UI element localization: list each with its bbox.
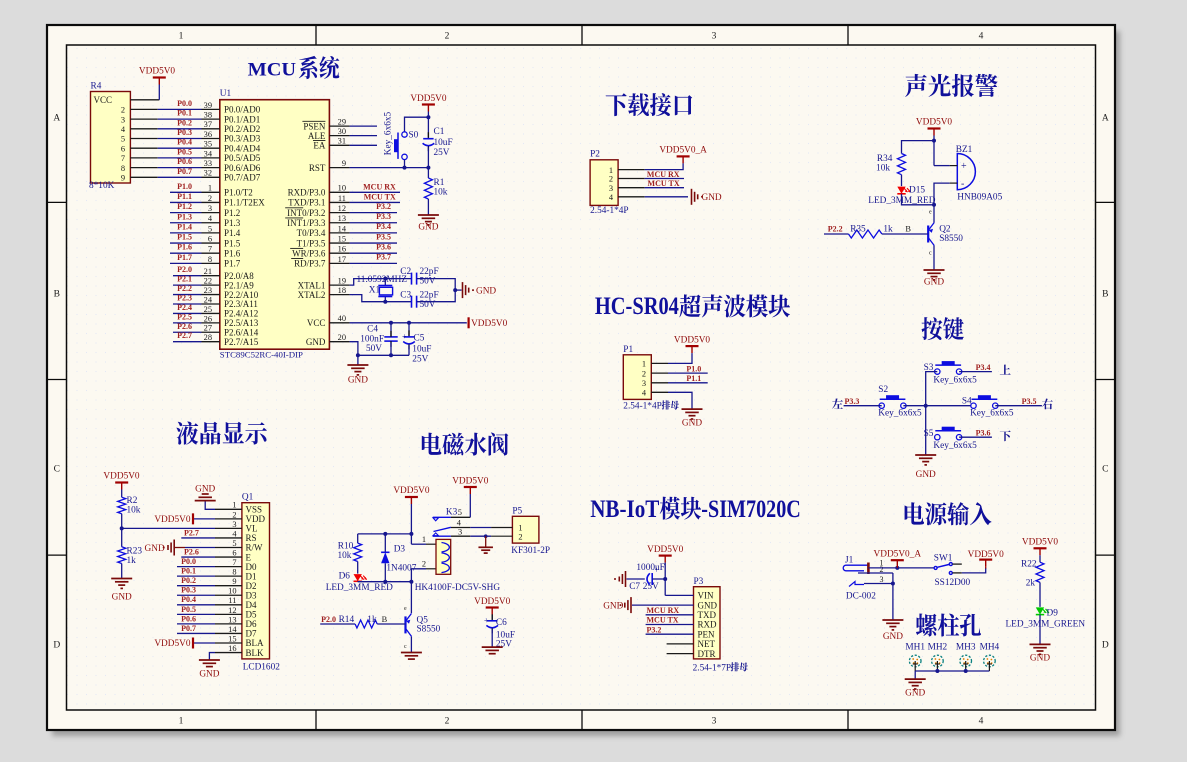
svg-text:1k: 1k — [127, 556, 137, 566]
svg-text:MH1: MH1 — [905, 643, 925, 653]
svg-text:30: 30 — [338, 127, 346, 136]
svg-text:3: 3 — [712, 32, 717, 42]
svg-text:GND: GND — [883, 632, 903, 642]
svg-text:VDD5V0: VDD5V0 — [103, 472, 140, 482]
svg-text:P1.2: P1.2 — [177, 202, 192, 211]
svg-text:34: 34 — [204, 149, 213, 158]
svg-text:D1: D1 — [246, 571, 257, 581]
svg-text:2.54-1*4P: 2.54-1*4P — [623, 402, 661, 412]
svg-text:P1.7: P1.7 — [224, 259, 241, 269]
svg-text:U1: U1 — [220, 89, 232, 99]
svg-text:28: 28 — [204, 333, 212, 342]
svg-text:3: 3 — [208, 204, 212, 213]
svg-text:16: 16 — [228, 644, 236, 653]
svg-text:1000uF: 1000uF — [636, 563, 664, 573]
svg-text:HNB09A05: HNB09A05 — [957, 193, 1002, 203]
svg-text:E: E — [246, 552, 252, 562]
svg-text:1: 1 — [642, 360, 646, 369]
svg-text:2: 2 — [445, 717, 450, 727]
svg-text:STC89C52RC-40I-DIP: STC89C52RC-40I-DIP — [220, 350, 303, 360]
svg-text:P3.4: P3.4 — [976, 363, 991, 372]
svg-text:1: 1 — [232, 501, 236, 510]
svg-text:8*10K: 8*10K — [89, 181, 115, 191]
svg-text:1k: 1k — [367, 615, 377, 625]
svg-text:VDD5V0: VDD5V0 — [139, 67, 176, 77]
svg-text:D3: D3 — [394, 544, 406, 554]
svg-text:A: A — [1102, 114, 1109, 124]
svg-text:8: 8 — [208, 255, 212, 264]
svg-text:GND: GND — [698, 600, 718, 610]
svg-text:37: 37 — [204, 120, 212, 129]
svg-text:MH3: MH3 — [956, 643, 976, 653]
svg-text:P0.5/AD5: P0.5/AD5 — [224, 153, 261, 163]
svg-text:D15: D15 — [909, 186, 925, 196]
svg-text:LCD1602: LCD1602 — [243, 663, 281, 673]
svg-text:S4: S4 — [962, 397, 972, 407]
svg-text:3: 3 — [121, 115, 125, 124]
svg-text:21: 21 — [204, 267, 212, 276]
svg-text:P1.4: P1.4 — [224, 228, 241, 238]
svg-text:P1.2: P1.2 — [224, 208, 240, 218]
svg-text:GND: GND — [603, 602, 623, 612]
svg-text:VDD5V0_A: VDD5V0_A — [659, 146, 707, 156]
svg-text:VIN: VIN — [698, 591, 714, 601]
svg-text:S5: S5 — [924, 429, 934, 439]
svg-text:P3.2: P3.2 — [647, 625, 662, 634]
svg-text:DC-002: DC-002 — [846, 592, 876, 602]
svg-text:10: 10 — [338, 184, 346, 193]
svg-text:23: 23 — [204, 286, 212, 295]
svg-text:P2.3: P2.3 — [177, 293, 192, 302]
svg-text:20: 20 — [338, 333, 346, 342]
svg-text:P0.0/AD0: P0.0/AD0 — [224, 105, 261, 115]
svg-text:2: 2 — [445, 32, 450, 42]
svg-text:VSS: VSS — [246, 505, 263, 515]
svg-text:R35: R35 — [850, 225, 866, 235]
svg-text:VDD5V0: VDD5V0 — [1022, 538, 1059, 548]
svg-text:P3.3: P3.3 — [376, 212, 391, 221]
svg-text:MCU RX: MCU RX — [647, 606, 680, 615]
svg-text:P3.5: P3.5 — [376, 232, 391, 241]
svg-text:ALE: ALE — [308, 131, 326, 141]
svg-text:HK4100F-DC5V-SHG: HK4100F-DC5V-SHG — [415, 583, 501, 593]
svg-text:10k: 10k — [127, 506, 141, 516]
svg-text:26: 26 — [204, 314, 212, 323]
svg-text:100nF: 100nF — [360, 335, 384, 345]
svg-text:Key_6x6x5: Key_6x6x5 — [970, 408, 1014, 418]
svg-text:12: 12 — [228, 606, 236, 615]
svg-text:R2: R2 — [127, 496, 138, 506]
svg-text:9: 9 — [232, 577, 236, 586]
svg-text:P3.2: P3.2 — [376, 202, 391, 211]
svg-text:BZ1: BZ1 — [956, 145, 973, 155]
svg-text:C5: C5 — [414, 334, 425, 344]
svg-text:22pF: 22pF — [420, 290, 439, 300]
svg-text:P0.0: P0.0 — [181, 557, 196, 566]
svg-text:P1.0: P1.0 — [177, 182, 192, 191]
svg-text:10uF: 10uF — [412, 345, 431, 355]
svg-text:P3.4: P3.4 — [376, 222, 391, 231]
svg-text:P0.6/AD6: P0.6/AD6 — [224, 163, 261, 173]
svg-text:VDD5V0: VDD5V0 — [154, 639, 191, 649]
svg-text:B: B — [905, 225, 911, 234]
svg-text:S0: S0 — [409, 131, 419, 141]
svg-text:P2.7: P2.7 — [177, 331, 192, 340]
svg-text:NB-IoT: NB-IoT — [590, 496, 659, 523]
svg-text:WR/P3.6: WR/P3.6 — [292, 248, 326, 258]
svg-text:NET: NET — [698, 639, 716, 649]
svg-text:P1.5: P1.5 — [224, 238, 241, 248]
svg-text:2: 2 — [518, 532, 522, 541]
svg-text:1k: 1k — [883, 225, 893, 235]
svg-text:6: 6 — [232, 548, 236, 557]
svg-text:17: 17 — [338, 255, 346, 264]
svg-text:P3: P3 — [694, 577, 704, 587]
svg-text:GND: GND — [195, 485, 215, 495]
svg-text:R4: R4 — [91, 82, 102, 92]
svg-text:11: 11 — [338, 194, 346, 203]
svg-text:7: 7 — [232, 558, 236, 567]
svg-text:19: 19 — [338, 277, 346, 286]
svg-text:K3: K3 — [446, 507, 458, 517]
svg-text:Key_6x6x5: Key_6x6x5 — [384, 111, 394, 155]
svg-text:P2.6: P2.6 — [184, 547, 199, 556]
svg-text:R1: R1 — [434, 178, 445, 188]
svg-text:P1.6: P1.6 — [177, 243, 192, 252]
svg-text:D: D — [1102, 641, 1109, 651]
svg-text:33: 33 — [204, 159, 212, 168]
svg-text:TXD/P3.1: TXD/P3.1 — [288, 198, 325, 208]
svg-text:C1: C1 — [434, 127, 445, 137]
svg-text:32: 32 — [204, 169, 212, 178]
svg-text:R/W: R/W — [246, 543, 264, 553]
svg-text:e: e — [404, 606, 407, 612]
svg-text:GND: GND — [916, 470, 936, 480]
svg-text:2: 2 — [609, 175, 613, 184]
svg-text:RST: RST — [309, 163, 326, 173]
svg-text:16: 16 — [338, 245, 346, 254]
svg-text:RXD: RXD — [698, 620, 718, 630]
svg-text:35: 35 — [204, 140, 212, 149]
svg-text:P0.7: P0.7 — [177, 167, 192, 176]
svg-text:40: 40 — [338, 314, 346, 323]
svg-text:D5: D5 — [246, 610, 257, 620]
svg-text:10uF: 10uF — [434, 138, 453, 148]
svg-text:25V: 25V — [496, 640, 512, 650]
svg-text:RS: RS — [246, 533, 257, 543]
svg-text:GND: GND — [682, 419, 702, 429]
svg-text:LED_3MM_GREEN: LED_3MM_GREEN — [1006, 619, 1086, 629]
svg-text:P1.0: P1.0 — [686, 365, 701, 374]
svg-text:C3: C3 — [400, 290, 411, 300]
svg-text:25V: 25V — [434, 148, 450, 158]
svg-text:VDD5V0: VDD5V0 — [647, 545, 684, 555]
svg-text:1: 1 — [609, 166, 613, 175]
svg-text:P2.1: P2.1 — [177, 275, 192, 284]
svg-text:27: 27 — [204, 324, 212, 333]
svg-text:13: 13 — [228, 615, 236, 624]
svg-text:P2.0: P2.0 — [321, 615, 336, 624]
svg-text:XTAL2: XTAL2 — [298, 290, 326, 300]
svg-text:P1.4: P1.4 — [177, 222, 192, 231]
svg-text:2: 2 — [121, 106, 125, 115]
svg-text:R23: R23 — [127, 547, 143, 557]
svg-text:DTR: DTR — [698, 649, 716, 659]
svg-text:VDD5V0: VDD5V0 — [968, 550, 1005, 560]
svg-text:T0/P3.4: T0/P3.4 — [297, 228, 326, 238]
svg-text:5: 5 — [458, 508, 462, 517]
svg-text:P1: P1 — [623, 345, 633, 355]
svg-text:-SIM7020C: -SIM7020C — [701, 496, 801, 523]
svg-text:c: c — [929, 251, 932, 257]
svg-text:BLA: BLA — [246, 638, 265, 648]
svg-text:25: 25 — [204, 305, 212, 314]
svg-text:D7: D7 — [246, 629, 257, 639]
svg-text:P1.5: P1.5 — [177, 233, 192, 242]
svg-text:GND: GND — [702, 193, 722, 203]
svg-text:31: 31 — [338, 137, 346, 146]
svg-text:MCU RX: MCU RX — [363, 183, 396, 192]
svg-text:10k: 10k — [434, 188, 448, 198]
svg-text:P0.4/AD4: P0.4/AD4 — [224, 143, 261, 153]
svg-text:B: B — [54, 290, 60, 300]
svg-text:25V: 25V — [643, 582, 659, 592]
svg-text:14: 14 — [228, 625, 237, 634]
svg-text:+: + — [655, 566, 660, 575]
svg-text:P3.7: P3.7 — [376, 253, 391, 262]
svg-text:VL: VL — [246, 524, 258, 534]
svg-text:P2.5: P2.5 — [177, 312, 192, 321]
svg-text:P0.3/AD3: P0.3/AD3 — [224, 134, 261, 144]
svg-text:VDD5V0: VDD5V0 — [393, 486, 430, 496]
svg-text:MCU: MCU — [248, 61, 297, 81]
svg-text:12: 12 — [338, 204, 346, 213]
svg-text:7: 7 — [121, 154, 125, 163]
svg-text:Q1: Q1 — [242, 493, 254, 503]
svg-text:GND: GND — [306, 337, 326, 347]
svg-text:P1.3: P1.3 — [177, 212, 192, 221]
svg-text:PEN: PEN — [698, 629, 716, 639]
svg-text:J1: J1 — [845, 555, 854, 565]
svg-text:3: 3 — [232, 520, 236, 529]
svg-text:18: 18 — [338, 286, 346, 295]
svg-text:3: 3 — [712, 717, 717, 727]
svg-text:P0.1: P0.1 — [177, 109, 192, 118]
svg-text:GND: GND — [112, 593, 132, 603]
svg-text:VDD5V0: VDD5V0 — [471, 319, 508, 329]
svg-text:10k: 10k — [876, 164, 890, 174]
svg-text:P3.6: P3.6 — [976, 428, 991, 437]
svg-text:MH2: MH2 — [928, 643, 948, 653]
svg-text:P1.1: P1.1 — [177, 192, 192, 201]
svg-text:EA: EA — [313, 141, 325, 151]
svg-text:P3.5: P3.5 — [1022, 397, 1037, 406]
svg-text:C2: C2 — [400, 267, 411, 277]
svg-text:MH4: MH4 — [980, 643, 1000, 653]
svg-text:+: + — [961, 161, 967, 172]
svg-text:VCC: VCC — [307, 318, 326, 328]
svg-text:T1/P3.5: T1/P3.5 — [297, 238, 326, 248]
svg-text:9: 9 — [121, 174, 125, 183]
svg-text:RXD/P3.0: RXD/P3.0 — [288, 188, 326, 198]
svg-text:GND: GND — [199, 670, 219, 680]
svg-text:P0.4: P0.4 — [177, 138, 192, 147]
svg-text:Key_6x6x5: Key_6x6x5 — [933, 375, 977, 385]
svg-text:R14: R14 — [339, 615, 355, 625]
svg-text:1: 1 — [208, 184, 212, 193]
svg-text:15: 15 — [338, 234, 346, 243]
svg-text:P0.0: P0.0 — [177, 99, 192, 108]
svg-text:MCU TX: MCU TX — [648, 179, 680, 188]
svg-text:D6: D6 — [339, 572, 351, 582]
svg-text:C4: C4 — [367, 325, 378, 335]
svg-text:6: 6 — [208, 234, 212, 243]
svg-text:8: 8 — [232, 568, 236, 577]
svg-text:VCC: VCC — [94, 95, 113, 105]
svg-text:1: 1 — [179, 717, 184, 727]
svg-text:P2.7: P2.7 — [184, 528, 199, 537]
svg-text:GND: GND — [905, 688, 925, 698]
svg-text:P0.7: P0.7 — [181, 624, 196, 633]
svg-text:22: 22 — [204, 277, 212, 286]
svg-text:2.54-1*4P: 2.54-1*4P — [590, 206, 628, 216]
svg-text:3: 3 — [880, 575, 884, 584]
svg-text:5: 5 — [232, 539, 236, 548]
svg-text:2: 2 — [208, 194, 212, 203]
svg-text:c: c — [404, 644, 407, 650]
svg-text:D4: D4 — [246, 600, 257, 610]
svg-text:C7: C7 — [629, 582, 640, 592]
svg-text:P0.5: P0.5 — [181, 605, 196, 614]
svg-text:GND: GND — [348, 376, 368, 386]
svg-text:7: 7 — [208, 245, 212, 254]
svg-text:5: 5 — [208, 224, 212, 233]
svg-text:2.54-1*7P: 2.54-1*7P — [693, 664, 731, 674]
svg-text:P0.3: P0.3 — [181, 586, 196, 595]
svg-text:P0.6: P0.6 — [177, 157, 192, 166]
svg-text:8: 8 — [121, 164, 125, 173]
svg-text:P2.7/A15: P2.7/A15 — [224, 337, 259, 347]
svg-text:D: D — [53, 641, 60, 651]
svg-text:GND: GND — [1030, 653, 1050, 663]
svg-text:GND: GND — [476, 286, 496, 296]
svg-text:XTAL1: XTAL1 — [298, 280, 326, 290]
svg-text:P0.1/AD1: P0.1/AD1 — [224, 114, 260, 124]
svg-text:38: 38 — [204, 111, 212, 120]
svg-text:VDD5V0: VDD5V0 — [916, 118, 953, 128]
svg-text:S8550: S8550 — [417, 625, 441, 635]
svg-text:B: B — [382, 615, 388, 624]
svg-text:C6: C6 — [496, 618, 507, 628]
svg-text:4: 4 — [979, 717, 984, 727]
svg-text:29: 29 — [338, 118, 346, 127]
svg-text:LED_3MM_RED: LED_3MM_RED — [326, 583, 393, 593]
svg-text:P2.2: P2.2 — [177, 284, 192, 293]
svg-text:Key_6x6x5: Key_6x6x5 — [878, 408, 922, 418]
svg-text:GND: GND — [418, 223, 438, 233]
svg-text:INT0/P3.2: INT0/P3.2 — [287, 208, 325, 218]
svg-text:MCU TX: MCU TX — [364, 193, 396, 202]
svg-text:P2.0: P2.0 — [177, 265, 192, 274]
svg-text:6: 6 — [121, 144, 125, 153]
svg-text:10: 10 — [228, 587, 236, 596]
svg-text:1: 1 — [179, 32, 184, 42]
svg-text:P2: P2 — [590, 150, 600, 160]
svg-text:P0.1: P0.1 — [181, 567, 196, 576]
svg-text:P5: P5 — [512, 507, 522, 517]
svg-text:11: 11 — [228, 596, 236, 605]
svg-text:14: 14 — [338, 224, 347, 233]
svg-text:10k: 10k — [337, 551, 351, 561]
svg-text:SW1: SW1 — [934, 553, 953, 563]
svg-text:P1.0/T2: P1.0/T2 — [224, 188, 253, 198]
svg-text:36: 36 — [204, 130, 212, 139]
svg-text:50V: 50V — [366, 344, 382, 354]
svg-text:2k: 2k — [1026, 578, 1036, 588]
svg-text:C: C — [54, 465, 60, 475]
svg-text:VDD: VDD — [246, 514, 266, 524]
svg-text:P1.7: P1.7 — [177, 253, 192, 262]
svg-text:P3.6: P3.6 — [376, 242, 391, 251]
svg-text:P0.3: P0.3 — [177, 128, 192, 137]
svg-text:P0.2/AD2: P0.2/AD2 — [224, 124, 260, 134]
svg-text:R22: R22 — [1021, 560, 1037, 570]
svg-text:GND: GND — [145, 544, 165, 554]
svg-text:HC-SR04: HC-SR04 — [595, 293, 679, 320]
svg-text:P3.3: P3.3 — [845, 397, 860, 406]
svg-text:INT1/P3.3: INT1/P3.3 — [287, 218, 326, 228]
svg-text:PSEN: PSEN — [303, 121, 326, 131]
svg-text:Key_6x6x5: Key_6x6x5 — [933, 441, 977, 451]
svg-text:VDD5V0: VDD5V0 — [410, 94, 447, 104]
svg-text:D3: D3 — [246, 590, 257, 600]
svg-text:22pF: 22pF — [420, 267, 439, 277]
svg-text:P0.5: P0.5 — [177, 147, 192, 156]
svg-text:P2.4: P2.4 — [177, 303, 192, 312]
svg-text:+: + — [402, 332, 407, 341]
svg-text:P0.4: P0.4 — [181, 595, 196, 604]
svg-text:GND: GND — [924, 278, 944, 288]
svg-text:VDD5V0_A: VDD5V0_A — [874, 550, 922, 560]
svg-text:P1.3: P1.3 — [224, 218, 241, 228]
svg-text:VDD5V0: VDD5V0 — [154, 515, 191, 525]
svg-text:D0: D0 — [246, 562, 257, 572]
svg-text:C: C — [1102, 465, 1108, 475]
svg-text:P0.7/AD7: P0.7/AD7 — [224, 173, 261, 183]
svg-text:4: 4 — [979, 32, 984, 42]
svg-text:e: e — [929, 210, 932, 216]
svg-text:+: + — [484, 616, 489, 625]
svg-text:P1.6: P1.6 — [224, 248, 241, 258]
svg-text:3: 3 — [642, 379, 646, 388]
svg-text:25V: 25V — [412, 355, 428, 365]
svg-text:D2: D2 — [246, 581, 257, 591]
svg-text:D6: D6 — [246, 619, 257, 629]
svg-text:VDD5V0: VDD5V0 — [452, 477, 489, 487]
svg-text:13: 13 — [338, 214, 346, 223]
svg-text:TXD: TXD — [698, 610, 717, 620]
svg-text:1: 1 — [518, 524, 522, 533]
svg-text:VDD5V0: VDD5V0 — [674, 336, 711, 346]
svg-text:3: 3 — [609, 184, 613, 193]
svg-text:15: 15 — [228, 634, 236, 643]
svg-text:S8550: S8550 — [939, 234, 963, 244]
svg-text:B: B — [1102, 290, 1108, 300]
svg-text:P0.2: P0.2 — [181, 576, 196, 585]
svg-text:VDD5V0: VDD5V0 — [474, 597, 511, 607]
svg-text:9: 9 — [342, 159, 346, 168]
svg-text:39: 39 — [204, 101, 212, 110]
